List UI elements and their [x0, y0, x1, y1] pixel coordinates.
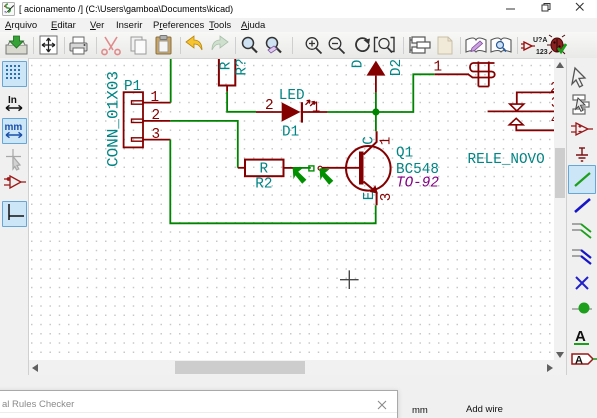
place wire tool (selected)	[575, 173, 590, 186]
cathode bar	[301, 102, 303, 122]
svg-text:In: In	[8, 95, 17, 106]
print icon	[70, 37, 87, 54]
no connect tool	[576, 277, 588, 289]
svg-text:TO-92: TO-92	[396, 175, 439, 191]
menu bar	[0, 18, 597, 32]
hidden pin button	[4, 176, 26, 188]
emitter arrow	[370, 185, 378, 193]
relay contact pin 4	[516, 125, 554, 130]
place bus tool	[575, 199, 590, 212]
pin 3 of P1	[143, 139, 170, 141]
grid button dots	[6, 65, 20, 79]
undo icon	[186, 36, 202, 50]
annotate icon	[521, 37, 548, 56]
body circle	[346, 146, 391, 191]
wire from P1 pin 3 to Q1 emitter	[170, 140, 375, 224]
svg-text:1: 1	[434, 60, 443, 76]
left pin of R2	[238, 167, 245, 169]
svg-text:mm: mm	[5, 122, 23, 133]
library editor icon	[466, 38, 486, 52]
anode triangle	[282, 102, 301, 121]
main toolbar	[0, 32, 597, 59]
svg-text:Q1: Q1	[396, 146, 413, 162]
cathode triangle	[367, 61, 386, 76]
right toolbar	[566, 58, 597, 390]
svg-text:RELE_NOVO: RELE_NOVO	[468, 152, 545, 168]
svg-text:R?: R?	[235, 59, 251, 76]
dangling wire at R2 right	[294, 167, 311, 169]
cursor shape button	[6, 149, 21, 170]
contact triangle down	[510, 104, 524, 111]
svg-text:D: D	[351, 60, 367, 69]
svg-text:2: 2	[152, 108, 161, 124]
ERC marker at Q1 base	[320, 168, 334, 185]
junction tool	[572, 303, 592, 314]
save icon	[6, 36, 27, 54]
canvas	[29, 59, 554, 360]
svg-text:1: 1	[312, 100, 321, 116]
svg-text:R: R	[260, 161, 269, 177]
hierarchy icon	[410, 37, 430, 53]
relay contact pin 2	[517, 92, 554, 103]
paste icon	[156, 36, 171, 55]
unconnected pin circle	[318, 166, 322, 170]
copy icon	[131, 37, 146, 54]
find replace icon	[267, 38, 282, 54]
svg-text:A: A	[575, 328, 586, 345]
svg-text:D1: D1	[282, 124, 299, 140]
svg-text:2: 2	[265, 98, 274, 114]
wire-to-bus entry tool	[572, 224, 591, 238]
svg-text:C: C	[361, 136, 377, 145]
cursor arrow tool	[572, 68, 585, 87]
wire from junction to Q1 collector	[375, 112, 377, 131]
hierarchy navigate tool	[573, 95, 589, 114]
svg-text:P1: P1	[124, 79, 141, 95]
svg-text:123: 123	[536, 49, 548, 56]
svg-text:E: E	[362, 192, 378, 201]
crosshair cursor	[340, 270, 359, 289]
global label tool	[572, 354, 597, 367]
wire from junction to relay coil	[376, 74, 435, 112]
svg-text:R: R	[219, 61, 235, 70]
relay K1 RELE_NOVO	[435, 62, 495, 87]
pin 1 of P1	[143, 102, 171, 104]
base bar	[359, 152, 364, 185]
diode D2 (clipped at top)	[351, 59, 406, 93]
emitter stroke	[364, 182, 377, 206]
pin 2 of D1	[256, 111, 282, 113]
right pin of R2	[284, 167, 294, 169]
pin 2 of P1	[143, 120, 170, 122]
library browser icon	[491, 38, 511, 52]
svg-text:1: 1	[378, 137, 394, 146]
connector P1	[124, 92, 171, 147]
status bar	[0, 375, 597, 418]
bus-to-bus entry tool	[572, 250, 591, 264]
relay coil	[468, 62, 495, 87]
place power port tool	[576, 148, 588, 161]
unconnected wire end square	[309, 166, 314, 171]
ortho mode button	[9, 204, 24, 220]
pin of R1	[226, 86, 228, 92]
svg-text:3: 3	[379, 193, 395, 202]
left toolbar	[0, 58, 29, 390]
find icon	[243, 38, 258, 53]
transistor Q1	[318, 131, 439, 205]
svg-text:A: A	[575, 355, 583, 367]
zoom fit icon	[375, 38, 395, 53]
wire from P1 pin 1 up	[170, 58, 172, 103]
svg-text:3: 3	[152, 127, 161, 143]
scrollbars	[554, 59, 566, 360]
title bar	[0, 0, 597, 18]
svg-text:R2: R2	[255, 177, 272, 193]
wire from D2 to junction	[375, 93, 377, 112]
contact triangle up	[509, 118, 523, 125]
zoom in icon	[306, 38, 321, 54]
LED D1	[256, 88, 327, 140]
wire from P1 pin 2 to R2	[170, 121, 238, 168]
leave sheet icon (disabled)	[438, 37, 452, 54]
base pin 2	[322, 167, 359, 169]
relay common contact pin 3	[488, 110, 554, 112]
pin of D2	[375, 76, 377, 93]
ERC marker at wire end	[293, 167, 307, 184]
svg-text:U?A: U?A	[533, 37, 547, 44]
LED light arrows	[306, 100, 315, 106]
pin 1 of D1	[303, 111, 327, 113]
place component tool	[571, 123, 593, 135]
junction	[372, 108, 379, 115]
page settings icon	[40, 36, 57, 54]
zoom out icon	[329, 38, 344, 54]
redo icon (disabled)	[212, 36, 228, 50]
cut icon	[102, 37, 120, 55]
redraw icon	[356, 38, 370, 51]
resistor R2	[238, 160, 294, 193]
wire from R1 to LED D1	[227, 92, 256, 112]
svg-text:CONN_01X03: CONN_01X03	[105, 71, 123, 167]
ERC dialog	[0, 390, 398, 418]
svg-text:LED: LED	[279, 88, 305, 104]
svg-text:D2: D2	[389, 59, 405, 76]
ERC bug icon	[547, 35, 567, 54]
pin 1 of relay	[435, 73, 469, 75]
svg-text:1: 1	[151, 90, 160, 106]
wire from D1 to junction	[327, 111, 376, 113]
collector stroke	[364, 131, 377, 154]
resistor R1 (top, clipped)	[219, 52, 251, 92]
